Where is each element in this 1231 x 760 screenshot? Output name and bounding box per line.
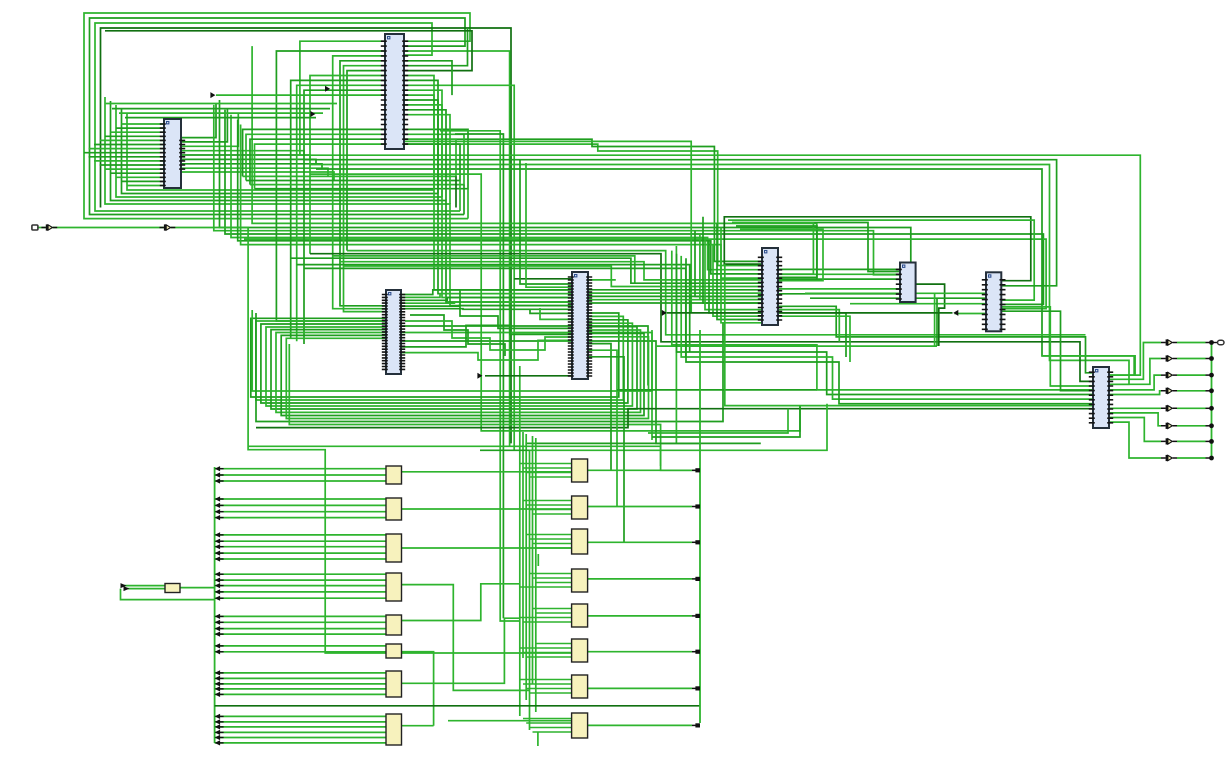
wire [459, 181, 461, 212]
wire [1211, 343, 1213, 459]
wire [523, 683, 572, 685]
wire [532, 436, 534, 684]
wire [401, 290, 572, 295]
wire [116, 127, 164, 129]
wire [252, 46, 817, 280]
wire [215, 591, 386, 593]
wire [717, 223, 762, 319]
wire [778, 313, 846, 357]
wire [520, 679, 572, 681]
wire [243, 129, 386, 176]
wire [520, 617, 572, 619]
wire [530, 727, 572, 729]
wire [724, 217, 1031, 281]
junction [1209, 423, 1214, 428]
bus tap arrow [215, 515, 221, 520]
wire [225, 110, 1043, 305]
wire [215, 558, 386, 560]
bus tap arrow [215, 556, 221, 561]
gate A3 [386, 534, 402, 562]
wire [1109, 375, 1161, 390]
wire [105, 97, 572, 306]
wire [215, 621, 386, 623]
wire [216, 94, 386, 96]
wire [214, 105, 900, 275]
wire [215, 742, 386, 744]
wire [692, 651, 697, 653]
wire [89, 148, 165, 150]
wire [778, 278, 900, 280]
wire [404, 141, 691, 313]
wire [250, 139, 386, 184]
wire [520, 160, 572, 284]
wire [536, 612, 572, 614]
wire [525, 434, 527, 700]
bus tap arrow [215, 572, 221, 577]
junction [695, 614, 700, 618]
wire [533, 731, 572, 733]
wire [523, 500, 572, 502]
wire [116, 176, 164, 178]
bus tap arrow [215, 719, 221, 724]
wire [215, 677, 386, 679]
wire [805, 292, 986, 294]
wire [124, 588, 166, 590]
wire [94, 160, 164, 162]
wire [84, 152, 164, 154]
bus tap arrow [215, 632, 221, 637]
wire [537, 732, 539, 746]
wire [540, 308, 572, 319]
buffer [46, 224, 48, 230]
wire [519, 366, 521, 716]
wire [106, 103, 337, 105]
wire [526, 504, 571, 506]
wire [215, 517, 386, 519]
wire [404, 144, 763, 265]
wire [686, 258, 1093, 404]
bus tap arrow [215, 686, 221, 691]
wire [404, 139, 763, 261]
wire [672, 251, 1093, 390]
gate B4 [572, 569, 588, 592]
bus tap arrow [215, 724, 221, 729]
junction [695, 686, 700, 690]
wire [121, 589, 215, 600]
wire [181, 155, 310, 160]
wire [588, 724, 692, 726]
wire [520, 463, 572, 465]
input arrow [121, 583, 127, 588]
wire [692, 615, 697, 617]
output buffer [1166, 438, 1168, 444]
wire [1109, 413, 1161, 426]
wire [455, 176, 457, 207]
wire [657, 345, 937, 347]
wire [255, 144, 387, 189]
wire [523, 718, 572, 720]
gate A6 [386, 644, 402, 658]
wire [215, 552, 386, 554]
wire [401, 294, 572, 298]
wire [617, 389, 817, 391]
wire [448, 720, 572, 722]
wire [778, 306, 1093, 373]
wire [401, 584, 520, 621]
wire [281, 333, 644, 415]
wire [677, 254, 1094, 395]
wire [261, 320, 628, 403]
wire [522, 432, 524, 658]
junction [695, 504, 700, 508]
bus tap arrow [215, 620, 221, 625]
wire [533, 577, 572, 579]
wire [300, 41, 1140, 375]
junction [695, 468, 700, 472]
wire [675, 246, 677, 443]
output buffer [1166, 339, 1168, 345]
wire [215, 511, 386, 513]
IC U8 [1089, 367, 1113, 428]
wire [1109, 391, 1161, 395]
gate B7 [572, 675, 588, 698]
wire [215, 633, 386, 635]
bus tap arrow [215, 583, 221, 588]
wire [404, 115, 450, 204]
input arrow [124, 586, 130, 591]
wire [810, 297, 986, 299]
wire [401, 326, 648, 386]
wire [94, 144, 164, 146]
wire [778, 310, 839, 342]
gate A7 [386, 671, 402, 697]
wire [181, 164, 322, 169]
bus tap arrow [215, 643, 221, 648]
wire [127, 113, 572, 290]
wire [526, 656, 571, 658]
wire [1109, 359, 1161, 385]
wire [1109, 407, 1161, 409]
wire [526, 688, 571, 690]
wire [181, 104, 216, 138]
gate B2 [572, 496, 588, 519]
wire [778, 288, 900, 290]
wire [243, 139, 456, 176]
junction [695, 540, 700, 544]
wire [404, 61, 452, 95]
wire [1177, 457, 1206, 459]
wire [248, 446, 660, 466]
wire [89, 156, 165, 158]
bus tap arrow [215, 466, 221, 471]
wire [705, 238, 762, 310]
wire [171, 228, 572, 654]
wire [122, 109, 573, 294]
bus tap arrow [215, 509, 221, 514]
wire [215, 651, 386, 653]
junction [1209, 356, 1214, 361]
wire [728, 220, 1034, 300]
wire [523, 467, 572, 469]
wire [37, 227, 46, 229]
gate A4 [386, 573, 402, 601]
wire [95, 23, 460, 211]
wire [401, 585, 530, 691]
wire [181, 159, 316, 164]
wire [692, 469, 697, 471]
wire [530, 509, 572, 511]
wire [1177, 342, 1206, 344]
wire [1177, 440, 1206, 442]
gate A2 [386, 498, 402, 520]
wire [404, 28, 468, 66]
wire [401, 547, 572, 549]
wire [304, 268, 686, 357]
wire [125, 117, 316, 119]
wire [111, 172, 165, 174]
bus tap arrow [215, 496, 221, 501]
wire [692, 541, 697, 543]
wire [721, 228, 762, 323]
wire [256, 316, 623, 400]
wire [530, 476, 572, 478]
bus tap arrow [215, 681, 221, 686]
gate B8 [572, 713, 588, 738]
wire [304, 90, 386, 344]
IC U3 [382, 290, 405, 374]
bus tap arrow [215, 649, 221, 654]
bus tap arrow [215, 551, 221, 556]
wire [778, 316, 850, 362]
wire [467, 189, 469, 219]
IC U7 [982, 272, 1006, 331]
wire [215, 573, 386, 575]
wire [1177, 358, 1206, 360]
wire [181, 113, 238, 146]
wire [916, 284, 945, 346]
wire [215, 498, 386, 500]
wire [404, 110, 446, 201]
wire [1206, 457, 1210, 459]
wire [252, 310, 652, 391]
IC U2 [381, 34, 408, 149]
wire [732, 223, 813, 274]
wire [1002, 307, 1093, 386]
wire [401, 618, 520, 683]
wire [588, 469, 692, 471]
wire [588, 302, 762, 304]
wire [588, 615, 692, 617]
wire [112, 108, 330, 110]
wire [231, 115, 763, 270]
wire [725, 264, 1093, 406]
net flag [662, 310, 667, 316]
wire [588, 578, 692, 580]
junction [1209, 439, 1214, 444]
junction [695, 723, 700, 727]
wire [220, 100, 911, 263]
wire [514, 278, 572, 280]
bus tap arrow [215, 676, 221, 681]
wire [692, 506, 697, 508]
wire [778, 293, 900, 295]
wire [588, 279, 616, 281]
output buffer [1166, 388, 1168, 394]
wire [340, 61, 386, 306]
buffer [164, 224, 166, 230]
gate B6 [572, 639, 588, 662]
junction [695, 577, 700, 581]
wire [127, 185, 164, 187]
wire [530, 310, 572, 313]
wire [1206, 374, 1210, 376]
wire [463, 185, 465, 215]
wire [692, 578, 697, 580]
wire [778, 268, 900, 270]
wire [215, 737, 386, 739]
bus tap arrow [215, 503, 221, 508]
bus tap arrow [215, 596, 221, 601]
wire [401, 302, 572, 303]
wire [460, 290, 572, 328]
wire [215, 645, 386, 647]
wire [251, 313, 619, 397]
wire [401, 341, 700, 443]
wire [304, 160, 1057, 286]
wire [681, 256, 1093, 399]
wire [215, 615, 386, 617]
wire [588, 687, 692, 689]
wire [238, 120, 763, 274]
bus tap arrow [215, 714, 221, 719]
IC U4 [568, 272, 592, 379]
wire [181, 168, 328, 176]
wire [401, 333, 652, 441]
wire [84, 13, 470, 219]
wire [954, 313, 986, 315]
wire [215, 693, 386, 695]
wire [181, 151, 304, 156]
wire [533, 513, 572, 515]
wire [215, 688, 386, 690]
wire [215, 683, 386, 685]
wire [344, 66, 387, 312]
wire [347, 71, 386, 251]
wire [404, 95, 434, 190]
wire [310, 165, 1129, 385]
bus tap arrow [215, 740, 221, 745]
wire [588, 651, 692, 653]
wire [291, 80, 386, 338]
wire [1109, 422, 1161, 458]
wire [286, 337, 648, 419]
wire [297, 85, 386, 341]
wire [1214, 342, 1218, 344]
wire [215, 474, 386, 476]
wire [401, 471, 572, 473]
wire [266, 323, 632, 406]
wire [530, 404, 828, 451]
wire [256, 409, 1093, 428]
wire [1042, 356, 1135, 375]
bus tap arrow [215, 544, 221, 549]
junction [695, 650, 700, 654]
bus tap arrow [215, 478, 221, 483]
gate C1 [165, 584, 180, 593]
wire [246, 144, 460, 180]
wire [215, 721, 386, 723]
wire [699, 330, 701, 723]
wire [530, 573, 572, 575]
wire [588, 299, 762, 301]
wire [713, 245, 762, 317]
wire [256, 313, 723, 422]
wire [1206, 358, 1210, 360]
wire [333, 256, 635, 283]
wire [122, 123, 165, 125]
wire [588, 289, 762, 291]
wire [344, 266, 763, 287]
wire [588, 295, 762, 297]
wire [1109, 418, 1161, 442]
wire [404, 51, 510, 447]
wire [180, 587, 215, 589]
wire [588, 506, 692, 508]
wire [1206, 342, 1210, 344]
wire [215, 731, 386, 733]
wire [215, 585, 386, 587]
wire [530, 692, 572, 694]
wire [736, 226, 817, 277]
net flag [325, 86, 330, 92]
wire [215, 726, 386, 728]
wire [588, 344, 611, 471]
bus tap arrow [215, 532, 221, 537]
net flag [953, 310, 958, 316]
junction [1209, 406, 1214, 411]
gate A5 [386, 615, 402, 635]
input pad P1 [32, 225, 38, 230]
wire [1177, 407, 1206, 409]
wire [533, 543, 572, 545]
net flag [477, 373, 482, 379]
wire [537, 554, 539, 566]
wire [401, 308, 572, 311]
junction [1209, 456, 1214, 461]
junction [1209, 388, 1214, 393]
wire [588, 350, 617, 506]
wire [181, 109, 227, 142]
wire [215, 579, 386, 581]
wire [119, 112, 323, 114]
output buffer [1166, 372, 1168, 378]
wire [404, 85, 514, 450]
wire [122, 180, 165, 182]
wire [703, 217, 762, 303]
bus tap arrow [215, 735, 221, 740]
wire [289, 344, 700, 470]
IC U1 [160, 119, 185, 188]
wire [440, 131, 520, 621]
wire [255, 129, 469, 188]
wire [404, 76, 434, 191]
wire [250, 134, 464, 184]
gate A1 [386, 466, 402, 484]
wire [1206, 425, 1210, 427]
wire [105, 31, 472, 71]
wire [588, 357, 624, 543]
wire [215, 628, 386, 630]
